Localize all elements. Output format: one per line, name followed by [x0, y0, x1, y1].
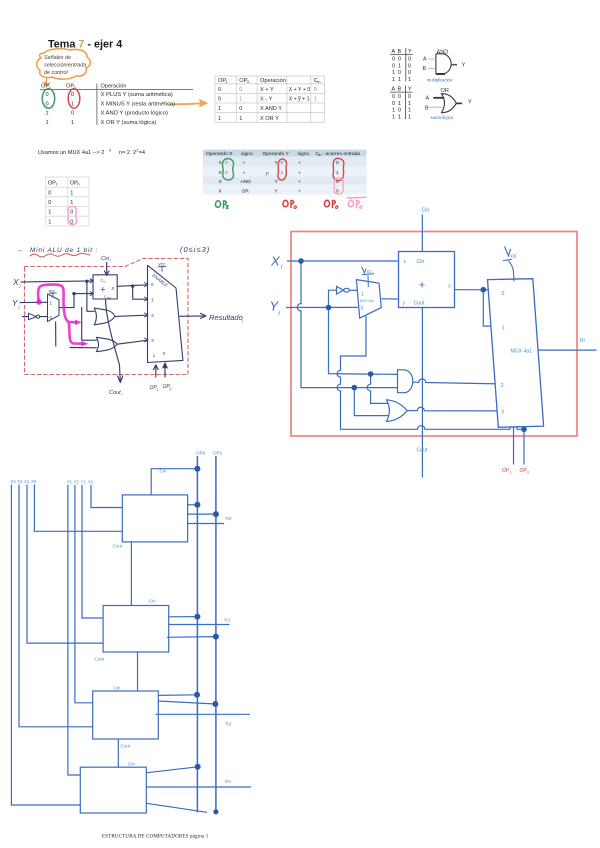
svg-text:i: i [20, 284, 22, 289]
svg-text:X2: X2 [17, 479, 23, 484]
svg-text:Cin: Cin [417, 259, 425, 265]
svg-text:Cin: Cin [114, 686, 121, 691]
svg-text:1: 1 [502, 326, 505, 332]
green circle on OP1 zeros [42, 89, 54, 109]
svg-text:0: 0 [225, 170, 228, 176]
svg-text:+: + [298, 180, 301, 185]
wire B1 sel0 [169, 616, 198, 618]
mux U5 MUX 4a1 [488, 279, 544, 428]
svg-text:X1: X1 [24, 479, 30, 484]
svg-text:1: 1 [48, 219, 51, 225]
svg-text:Cout: Cout [121, 744, 131, 749]
svg-text:1: 1 [239, 97, 242, 103]
svg-text:0: 0 [218, 87, 221, 93]
alu block B2 [93, 691, 159, 739]
svg-text:0: 0 [392, 101, 395, 107]
SECTION: hand sketch [12, 245, 243, 397]
wire or2 output to mux M2 in3 [117, 340, 147, 344]
wire B3 sel0 slant [146, 767, 197, 773]
svg-text:i: i [19, 305, 21, 310]
svg-text:0: 0 [48, 200, 51, 206]
wire mux M2 output [180, 313, 206, 318]
svg-text:X + y + 1: X + y + 1 [289, 97, 310, 103]
label OP0 red [520, 468, 530, 474]
svg-text:B: B [425, 106, 429, 112]
svg-text:1: 1 [55, 183, 57, 187]
svg-text:0: 0 [218, 97, 221, 103]
svg-text:R1: R1 [224, 618, 230, 623]
title Tema 7 - ejer 4 [48, 39, 122, 51]
junction dots sketch [72, 280, 166, 369]
svg-text:1: 1 [408, 114, 411, 120]
alu block B3 [80, 767, 146, 813]
svg-text:R0: R0 [226, 516, 232, 521]
wire mux U3 out to adder y [381, 298, 398, 300]
svg-text:0: 0 [527, 470, 529, 474]
svg-text:Operación: Operación [260, 78, 286, 84]
svg-text:1: 1 [408, 77, 411, 83]
svg-text:OP: OP [520, 468, 528, 474]
svg-text:0: 0 [163, 351, 166, 356]
or gate demo [425, 88, 472, 120]
wire Y1 [82, 485, 107, 618]
vcc label mux U3 [362, 267, 375, 288]
svg-text:1: 1 [336, 170, 339, 176]
svg-text:2: 2 [151, 313, 154, 318]
wire adder s out [455, 289, 498, 291]
svg-text:1: 1 [398, 101, 401, 107]
svg-text:1: 1 [392, 114, 395, 120]
svg-text:+: + [298, 189, 301, 194]
svg-text:i: i [281, 265, 283, 271]
svg-text:0: 0 [314, 87, 317, 93]
wire OP1 below mux [513, 427, 515, 465]
sketch title Mini ALU de 1 bit [17, 247, 98, 254]
red frame [291, 232, 577, 437]
svg-text:Y: Y [462, 63, 466, 69]
wire s branch to mux M2 in1 [133, 286, 148, 299]
svg-text:OP0: OP0 [196, 451, 206, 456]
wire Y3 [68, 485, 85, 775]
table T4 striped [203, 150, 367, 195]
label Cin_i sketch [101, 256, 111, 263]
svg-text:n= 2: n= 2 [119, 150, 130, 156]
SECTION: table2 [215, 76, 324, 122]
svg-text:X PLUS Y (suma aritmética): X PLUS Y (suma aritmética) [101, 92, 173, 98]
not gate N1 [29, 313, 40, 319]
wire not input [23, 316, 29, 318]
svg-text:n: n [109, 148, 111, 153]
svg-text:0: 0 [398, 108, 401, 114]
SECTION: footer [102, 835, 209, 840]
wire or out to mux in3 [407, 407, 500, 411]
svg-text:1: 1 [281, 170, 284, 176]
svg-text:X AND Y: X AND Y [260, 106, 282, 112]
svg-text:0: 0 [392, 57, 395, 63]
svg-text:Cout: Cout [414, 301, 426, 307]
red circle on OP0 col [68, 89, 80, 109]
label Cin top [422, 208, 430, 214]
svg-text:Y1: Y1 [81, 480, 87, 485]
svg-text:1: 1 [153, 353, 156, 358]
wire mux M1 output to adder y [59, 294, 93, 308]
pink circle on zeros [68, 206, 77, 224]
svg-text:+: + [243, 162, 246, 167]
svg-text:signo: signo [241, 151, 253, 157]
alu block B0 [122, 495, 187, 542]
svg-text:1: 1 [392, 70, 395, 76]
svg-text:1: 1 [218, 116, 221, 122]
svg-text:1: 1 [314, 97, 317, 103]
svg-text:cc: cc [511, 254, 517, 260]
svg-text:1: 1 [157, 388, 159, 392]
pink circle Cin col rows 3-4 [334, 178, 343, 194]
svg-text:i: i [242, 319, 243, 324]
svg-text:out: out [107, 296, 111, 300]
svg-text:Y: Y [408, 87, 412, 93]
wire B0 sel0 [188, 504, 198, 506]
svg-text:signo: signo [298, 151, 310, 157]
wire cin arrow into adder [105, 263, 110, 276]
SECTION: mux note + small table [38, 148, 145, 227]
svg-text:0: 0 [71, 92, 74, 98]
svg-text:1: 1 [46, 120, 49, 126]
wire mux M1 select down [55, 322, 57, 346]
SECTION: table1 [40, 84, 193, 126]
svg-text:Señales de: Señales de [44, 55, 71, 61]
label OP1 OP0 sketch [150, 384, 172, 392]
wire OP0 below mux [523, 427, 525, 465]
svg-text:Cin: Cin [160, 469, 167, 474]
svg-text:i: i [279, 311, 281, 317]
svg-text:Cout: Cout [417, 448, 429, 454]
svg-text:Y: Y [408, 49, 412, 55]
svg-text:i: i [110, 259, 111, 263]
svg-text:de control: de control [44, 70, 68, 76]
wire s branch to mux in1 [483, 290, 497, 326]
node Yi label [12, 298, 21, 310]
junction dots circuit [298, 258, 527, 432]
table T1 ops list [41, 84, 175, 126]
red wavy underline [30, 253, 90, 257]
orange arrow to op table [169, 100, 206, 106]
wire Yi horizontal [286, 306, 358, 308]
alu block B1 [103, 606, 169, 653]
wire or2 lower input [70, 347, 96, 349]
svg-text:Operando Y: Operando Y [263, 151, 290, 157]
wire Y0 [91, 485, 126, 508]
and gate demo [423, 50, 466, 83]
wire or top input [367, 374, 390, 403]
SECTION: bottom 4-bit diagram [11, 451, 252, 815]
wire B3 sel1 slant [146, 803, 207, 812]
svg-text:OP: OP [502, 468, 510, 474]
wire select op1 arrow [154, 365, 158, 377]
svg-text:2: 2 [501, 383, 504, 389]
svg-text:MUX 4a1: MUX 4a1 [511, 349, 533, 355]
vcc label mux U5 [503, 247, 514, 282]
input chevrons [90, 279, 148, 342]
svg-text:1: 1 [239, 116, 242, 122]
svg-text:0: 0 [77, 183, 79, 187]
svg-text:Cout: Cout [109, 390, 121, 396]
svg-text:Cout: Cout [95, 657, 105, 662]
wire Yi branch down to and [329, 308, 398, 375]
wire X2 [19, 485, 97, 727]
svg-text:Ri: Ri [580, 338, 585, 344]
svg-text:+: + [419, 280, 425, 292]
svg-text:1: 1 [218, 106, 221, 112]
sketch dashed red border [25, 259, 189, 375]
svg-text:Operando X: Operando X [206, 151, 233, 157]
wire mux U3 select down to OP0 [337, 316, 524, 430]
svg-text:vcc: vcc [159, 262, 166, 267]
svg-text:Y3: Y3 [67, 480, 73, 485]
svg-text:0: 0 [70, 210, 73, 216]
svg-text:Cout: Cout [113, 544, 123, 549]
svg-text:in: in [318, 80, 321, 84]
svg-text:3: 3 [151, 338, 154, 343]
svg-text:=4: =4 [139, 150, 145, 156]
svg-text:0: 0 [336, 160, 339, 166]
mux M2 big sketch [90, 262, 183, 363]
svg-text:1: 1 [71, 120, 74, 126]
svg-text:B: B [398, 87, 402, 93]
wire or bottom input [354, 388, 389, 416]
adder U4 [399, 252, 455, 308]
and gate G3 [398, 370, 413, 393]
svg-text:0: 0 [408, 70, 411, 76]
wire Xi to adder [21, 281, 93, 282]
label Cout_i sketch [109, 390, 123, 397]
wire cout down arrow [106, 299, 123, 383]
wire mux U5 output Ri [538, 349, 597, 351]
SECTION: teal table [203, 150, 367, 209]
wire B0 cout to B1 cin [130, 542, 132, 606]
svg-text:1: 1 [361, 292, 364, 298]
wire B2 cout to B3 cin [117, 739, 119, 767]
svg-text:A: A [392, 49, 396, 55]
wire Yi riser to not [329, 290, 337, 307]
svg-text:- acarreo entrada: - acarreo entrada [323, 151, 361, 157]
svg-text:0: 0 [408, 94, 411, 100]
SECTION: gates top right [390, 48, 472, 120]
handwritten OP0-bar pink [348, 197, 367, 208]
svg-text:+: + [243, 172, 246, 177]
svg-text:(0≤i≤3): (0≤i≤3) [180, 245, 210, 254]
svg-text:+: + [100, 285, 105, 295]
bus OP0 vertical [196, 456, 198, 813]
svg-text:0: 0 [398, 57, 401, 63]
svg-text:0: 0 [46, 101, 49, 107]
svg-text:i: i [122, 393, 123, 397]
svg-text:1: 1 [151, 298, 154, 303]
or gate G2s [96, 337, 117, 351]
wire Cin vertical [421, 215, 423, 252]
wire select op0 arrow [163, 363, 167, 377]
svg-text:Mini ALU de 1 bit :: Mini ALU de 1 bit : [30, 247, 98, 254]
adder A1 sketch [93, 275, 117, 300]
svg-text:cc: cc [367, 269, 372, 274]
wire adder cout down [421, 308, 423, 478]
wire X0 [34, 485, 126, 532]
wire R2 output [156, 713, 251, 715]
wire Xi horizontal [287, 260, 399, 262]
svg-text:X3: X3 [11, 479, 17, 484]
svg-text:0: 0 [361, 305, 364, 311]
svg-text:suma lógica: suma lógica [431, 115, 454, 120]
svg-text:X: X [270, 254, 281, 269]
wire B2 sel1 [158, 701, 215, 704]
svg-text:0: 0 [247, 80, 249, 84]
wire Y branch down to or2 [82, 308, 97, 341]
svg-text:1: 1 [398, 63, 401, 69]
svg-text:X: X [12, 277, 19, 287]
green circle X col [223, 158, 234, 179]
node Xi label [12, 277, 22, 289]
svg-text:R3: R3 [225, 779, 231, 784]
svg-text:A: A [423, 57, 427, 63]
svg-text:y: y [265, 172, 269, 177]
svg-text:1: 1 [392, 77, 395, 83]
svg-text:A: A [392, 87, 396, 93]
svg-text:1: 1 [48, 210, 51, 216]
mux U3 MUX 2a1 [356, 280, 381, 319]
truth table OR [392, 87, 413, 121]
svg-text:0: 0 [281, 160, 284, 166]
or gate G1s [94, 308, 115, 325]
wire or1 output to mux M2 in2 [115, 315, 148, 316]
truth table AND [392, 49, 413, 83]
svg-text:Cin: Cin [149, 599, 156, 604]
bus OP1 vertical [215, 456, 217, 812]
svg-text:0: 0 [398, 94, 401, 100]
table T2 grid [215, 76, 324, 122]
svg-text:X OR Y (suma lógica): X OR Y (suma lógica) [101, 120, 157, 126]
svg-text:1: 1 [70, 200, 73, 206]
svg-text:0: 0 [239, 87, 242, 93]
svg-text:0: 0 [239, 106, 242, 112]
svg-text:0: 0 [48, 190, 51, 196]
svg-text:1: 1 [398, 114, 401, 120]
svg-text:1: 1 [408, 101, 411, 107]
junction dots bottom [194, 466, 219, 815]
svg-text:1: 1 [46, 111, 49, 117]
svg-text:0: 0 [408, 57, 411, 63]
mux M1 small trapezoid [48, 288, 60, 321]
svg-text:OR: OR [242, 188, 250, 194]
svg-text:0: 0 [46, 92, 49, 98]
svg-text:1: 1 [408, 108, 411, 114]
wire Xi branch down with hop [297, 261, 397, 388]
svg-text:+: + [298, 162, 301, 167]
annotation bubble (orange cloud) [37, 49, 91, 86]
svg-text:X MINUS Y (resta aritmética): X MINUS Y (resta aritmética) [101, 101, 176, 107]
svg-text:Cin: Cin [101, 256, 109, 262]
wire B2 sel0 [158, 694, 197, 697]
table T1 rules [40, 84, 193, 126]
svg-text:OP1: OP1 [213, 451, 223, 456]
svg-text:X + Y + 0: X + Y + 0 [289, 87, 311, 93]
wire R3 output [146, 786, 251, 788]
wire not output to mux M1 [40, 316, 48, 318]
svg-text:AND: AND [241, 179, 252, 185]
labels Y3 Y2 Y1 Y0 [67, 480, 94, 485]
svg-text:0: 0 [398, 70, 401, 76]
svg-text:+: + [298, 172, 301, 177]
wire Yi to mux M1 [20, 301, 48, 303]
svg-text:ESTRUCTURA DE COMPUTADORES pág: ESTRUCTURA DE COMPUTADORES página 1 [102, 835, 209, 840]
svg-text:1: 1 [510, 470, 512, 474]
wire X3 [11, 485, 84, 806]
svg-text:0: 0 [71, 111, 74, 117]
svg-text:Y: Y [468, 100, 472, 106]
svg-text:1: 1 [70, 190, 73, 196]
svg-text:Cin: Cin [128, 762, 135, 767]
SECTION: header [37, 39, 206, 107]
svg-text:X AND Y (producto lógico): X AND Y (producto lógico) [101, 111, 169, 117]
wire Y2 [75, 485, 97, 703]
svg-text:B: B [398, 49, 402, 55]
svg-text:in: in [103, 279, 106, 283]
wire adder s to mux M2 in0 [117, 285, 147, 287]
magenta highlight path ybar [38, 284, 82, 343]
svg-text:A: A [426, 96, 430, 102]
svg-text:Y2: Y2 [74, 480, 80, 485]
svg-text:0: 0 [170, 387, 172, 391]
svg-text:X0: X0 [31, 479, 37, 484]
svg-text:Usamos un MUX 4a1 --> 2: Usamos un MUX 4a1 --> 2 [38, 150, 104, 156]
label Resultado sketch [209, 313, 243, 324]
bubble text: Señales de seleccion/entrada de control [44, 55, 86, 76]
or gate G4 [387, 400, 408, 422]
svg-text:X + Y: X + Y [260, 87, 274, 93]
svg-text:0: 0 [392, 94, 395, 100]
wire B1 cout to B2 cin [137, 652, 139, 691]
svg-text:0: 0 [502, 291, 505, 297]
wire R0 output [188, 523, 224, 525]
svg-text:X OR Y: X OR Y [260, 116, 279, 122]
magenta arrowheads and dot [36, 299, 88, 346]
label OP1 red [502, 468, 512, 474]
node Xi handwritten [270, 254, 283, 271]
wire Cin0 from OP0 [151, 469, 197, 495]
svg-text:0: 0 [151, 282, 154, 287]
not gate N2 [337, 286, 357, 294]
table T2 text [218, 78, 320, 122]
handwritten OP0 red 2 [324, 200, 337, 208]
svg-text:0: 0 [225, 160, 228, 166]
svg-text:in: in [319, 153, 322, 157]
wire B1 sel1 [167, 636, 216, 639]
wire X branch down to or1 [87, 281, 94, 311]
svg-text:selección/entrada: selección/entrada [44, 63, 86, 69]
svg-text:Operación: Operación [101, 84, 127, 90]
svg-text:s: s [112, 286, 115, 292]
handwritten OP0 red [283, 200, 296, 208]
svg-text:R2: R2 [226, 721, 232, 726]
svg-text:←: ← [17, 247, 24, 254]
wire and out to mux in2 [413, 379, 500, 384]
svg-text:1: 1 [50, 301, 53, 306]
svg-text:3: 3 [501, 410, 504, 416]
wire X1 [27, 485, 107, 644]
svg-text:vcc: vcc [49, 288, 55, 293]
svg-text:multiplicación: multiplicación [427, 78, 453, 83]
svg-text:0: 0 [408, 63, 411, 69]
SECTION: neat circuit [270, 208, 597, 478]
svg-text:1: 1 [398, 77, 401, 83]
